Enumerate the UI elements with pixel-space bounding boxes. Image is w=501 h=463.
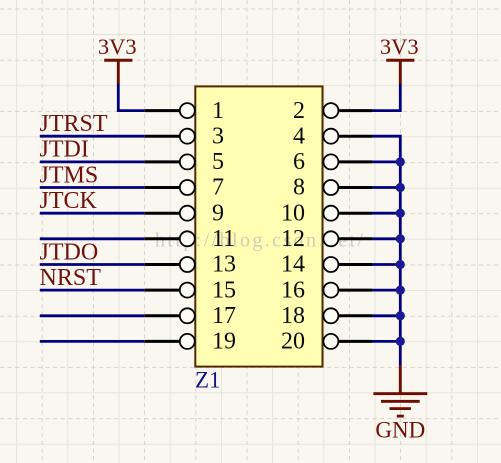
svg-text:16: 16 xyxy=(281,277,305,303)
svg-text:Z1: Z1 xyxy=(195,368,221,393)
junction at pin 20 row xyxy=(396,337,405,346)
pin 20 xyxy=(281,329,372,355)
wire pin 4 to GND bus xyxy=(372,136,400,365)
svg-text:17: 17 xyxy=(212,303,236,329)
wire net to pin 7 xyxy=(40,186,145,189)
connector Z1 body xyxy=(195,86,322,366)
svg-text:12: 12 xyxy=(281,226,305,252)
wire net to pin 5 xyxy=(40,160,145,163)
svg-text:3: 3 xyxy=(212,123,224,149)
pin 10 xyxy=(281,200,372,226)
svg-text:9: 9 xyxy=(212,200,224,226)
pin 1 xyxy=(145,98,224,124)
svg-text:7: 7 xyxy=(212,175,224,201)
svg-text:18: 18 xyxy=(281,303,305,329)
pin 11 xyxy=(145,226,235,252)
svg-text:14: 14 xyxy=(281,252,305,278)
svg-text:15: 15 xyxy=(212,277,236,303)
pin 17 xyxy=(145,303,236,329)
pin 5 xyxy=(145,149,224,175)
wire net to pin 15 xyxy=(40,289,145,292)
svg-text:13: 13 xyxy=(212,252,236,278)
svg-text:1: 1 xyxy=(212,98,224,124)
svg-text:JTMS: JTMS xyxy=(40,162,99,188)
wire pin 14 to bus xyxy=(372,263,400,266)
svg-text:3V3: 3V3 xyxy=(98,34,137,59)
power port 3V3 left xyxy=(98,34,137,84)
svg-text:6: 6 xyxy=(293,149,305,175)
wire pin 2 to 3V3 right xyxy=(372,84,400,111)
svg-text:20: 20 xyxy=(281,329,305,355)
wire pin 20 to bus xyxy=(372,340,400,343)
wire net to pin 9 xyxy=(40,212,145,215)
pin 19 xyxy=(145,329,236,355)
pin 8 xyxy=(293,175,372,201)
wire net to pin 13 xyxy=(40,263,145,266)
wire pin 6 to bus xyxy=(372,160,400,163)
wire 3V3 left to pin 1 xyxy=(118,84,145,111)
pin 14 xyxy=(281,252,372,278)
junction at pin 18 row xyxy=(396,311,405,320)
pin 7 xyxy=(145,175,224,201)
pin 9 xyxy=(145,200,224,226)
junction at pin 14 row xyxy=(396,260,405,269)
power port 3V3 right xyxy=(380,34,419,84)
wire net to pin 19 xyxy=(40,340,145,343)
pin 18 xyxy=(281,303,372,329)
junction at pin 16 row xyxy=(396,286,405,295)
svg-text:JTRST: JTRST xyxy=(40,111,108,137)
pin 12 xyxy=(281,226,372,252)
wire pin 12 to bus xyxy=(372,237,400,240)
junction at pin 10 row xyxy=(396,209,405,218)
junction at pin 8 row xyxy=(396,183,405,192)
pin 2 xyxy=(293,98,372,124)
pin 3 xyxy=(145,123,224,149)
svg-text:19: 19 xyxy=(212,329,236,355)
svg-text:JTCK: JTCK xyxy=(40,188,98,214)
wire pin 18 to bus xyxy=(372,314,400,317)
svg-text:2: 2 xyxy=(293,98,305,124)
svg-text:5: 5 xyxy=(212,149,224,175)
pin 4 xyxy=(293,123,372,149)
svg-text:GND: GND xyxy=(375,417,425,442)
wire pin 16 to bus xyxy=(372,289,400,292)
wire pin 10 to bus xyxy=(372,212,400,215)
svg-text:3V3: 3V3 xyxy=(380,34,419,59)
svg-text:NRST: NRST xyxy=(40,265,102,291)
pin 6 xyxy=(293,149,372,175)
svg-text:11: 11 xyxy=(212,226,235,252)
svg-text:JTDI: JTDI xyxy=(40,137,89,163)
pin 16 xyxy=(281,277,372,303)
pin 13 xyxy=(145,252,236,278)
svg-text:JTDO: JTDO xyxy=(40,239,99,265)
junction at pin 12 row xyxy=(396,234,405,243)
wire net to pin 11 xyxy=(40,237,145,240)
svg-text:8: 8 xyxy=(293,175,305,201)
pin 15 xyxy=(145,277,236,303)
wire net to pin 3 xyxy=(40,135,145,138)
power port GND xyxy=(373,366,427,443)
wire pin 8 to bus xyxy=(372,186,400,189)
wire net to pin 17 xyxy=(40,314,145,317)
svg-text:4: 4 xyxy=(293,123,305,149)
svg-text:10: 10 xyxy=(281,200,305,226)
junction at pin 6 row xyxy=(396,157,405,166)
